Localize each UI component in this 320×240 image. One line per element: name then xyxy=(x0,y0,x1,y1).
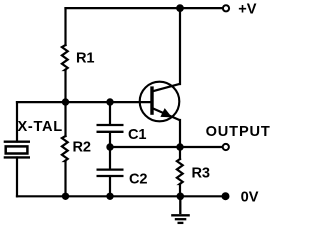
transistor Q1 xyxy=(140,82,181,122)
wire mid rail xyxy=(110,146,222,148)
svg-text:R2: R2 xyxy=(73,139,91,155)
svg-text:R3: R3 xyxy=(192,166,210,182)
wire collector xyxy=(179,8,181,84)
wire crystal branch lower xyxy=(16,158,18,197)
resistor R3 xyxy=(177,159,183,184)
terminal +V xyxy=(223,5,229,11)
node base/R1 xyxy=(62,98,69,105)
wire R3 lower xyxy=(179,184,181,196)
wire R1 branch upper xyxy=(64,8,66,45)
wire R1 lower xyxy=(64,70,66,102)
capacitor C2 xyxy=(97,170,124,176)
wire R2 lower xyxy=(64,161,66,196)
wire R2 upper xyxy=(64,102,66,136)
wire top rail (+V) xyxy=(66,7,223,9)
svg-text:R1: R1 xyxy=(76,51,94,67)
capacitor C1 xyxy=(97,125,124,132)
wire crystal branch upper xyxy=(16,102,18,141)
svg-text:+V: +V xyxy=(238,2,257,18)
ground xyxy=(171,196,190,223)
svg-text:0V: 0V xyxy=(241,190,259,206)
svg-text:C1: C1 xyxy=(128,127,146,143)
node bottom/R2 xyxy=(62,193,69,200)
wire R3 upper xyxy=(179,147,181,159)
resistor R2 xyxy=(62,136,68,161)
terminal 0V xyxy=(222,192,230,200)
wire bottom rail xyxy=(17,195,222,197)
wire C1 to mid rail xyxy=(109,133,111,147)
wire emitter xyxy=(179,120,181,147)
wire base rail xyxy=(17,101,151,103)
wire C2 lower xyxy=(109,177,111,196)
node +V/collector xyxy=(176,4,184,12)
node mid/C xyxy=(106,143,113,150)
node mid/emitter xyxy=(176,143,183,150)
node bottom/ground xyxy=(177,193,185,201)
wire C2 upper xyxy=(109,147,111,169)
svg-text:C2: C2 xyxy=(129,172,147,188)
node base/C1 xyxy=(106,98,113,105)
svg-text:X-TAL: X-TAL xyxy=(18,119,63,135)
terminal OUTPUT xyxy=(223,144,229,150)
wire C branch upper xyxy=(109,102,111,124)
resistor R1 xyxy=(62,45,68,70)
node bottom/C2 xyxy=(106,193,113,200)
svg-text:OUTPUT: OUTPUT xyxy=(206,124,271,140)
crystal X-TAL xyxy=(4,142,30,158)
